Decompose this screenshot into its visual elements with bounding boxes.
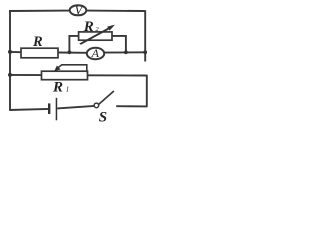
wire ammeter to right rail — [104, 51, 145, 53]
wire lower right rail — [146, 75, 148, 107]
svg-text:R: R — [32, 34, 43, 50]
node dot R2 branch left — [68, 50, 72, 54]
rheostat R1 body — [42, 71, 88, 80]
wire R1 row left segment — [10, 74, 42, 76]
wire top right segment — [86, 10, 144, 12]
svg-text:R: R — [52, 79, 63, 95]
switch S lever — [99, 91, 114, 105]
battery short plate — [48, 103, 50, 114]
voltmeter V ellipse — [70, 5, 87, 15]
node dot left rail middle — [8, 50, 12, 54]
R1 slider tap wire — [58, 65, 87, 73]
ammeter A ellipse — [87, 48, 104, 60]
R2 arrowhead — [107, 25, 115, 31]
svg-text:R: R — [83, 19, 94, 35]
wire top left segment — [9, 10, 70, 12]
resistor R2 body — [79, 32, 112, 40]
R1 slider arrowhead — [54, 66, 60, 72]
R2 arrow shaft (variable resistor) — [79, 27, 110, 45]
wire R2 branch left stub — [69, 36, 78, 52]
node dot left rail R1 row — [8, 73, 12, 77]
wire R1 to lower right rail — [88, 74, 147, 76]
wire bottom right segment — [116, 105, 147, 107]
wire middle left segment — [10, 51, 22, 53]
resistor R body — [21, 48, 58, 58]
node dot R2 branch right — [124, 50, 128, 54]
wire upper right rail — [144, 10, 146, 61]
svg-text:1: 1 — [66, 85, 70, 93]
wire between R and node — [58, 52, 87, 54]
wire left rail — [9, 11, 11, 110]
svg-text:S: S — [99, 109, 107, 124]
node dot right rail middle — [143, 50, 147, 54]
battery long plate — [56, 98, 58, 121]
svg-text:A: A — [91, 46, 100, 60]
wire switch to battery — [57, 106, 94, 109]
switch S pivot circle — [94, 103, 99, 108]
wire battery to bottom left corner — [9, 109, 49, 110]
wire R2 branch right stub — [112, 36, 126, 52]
